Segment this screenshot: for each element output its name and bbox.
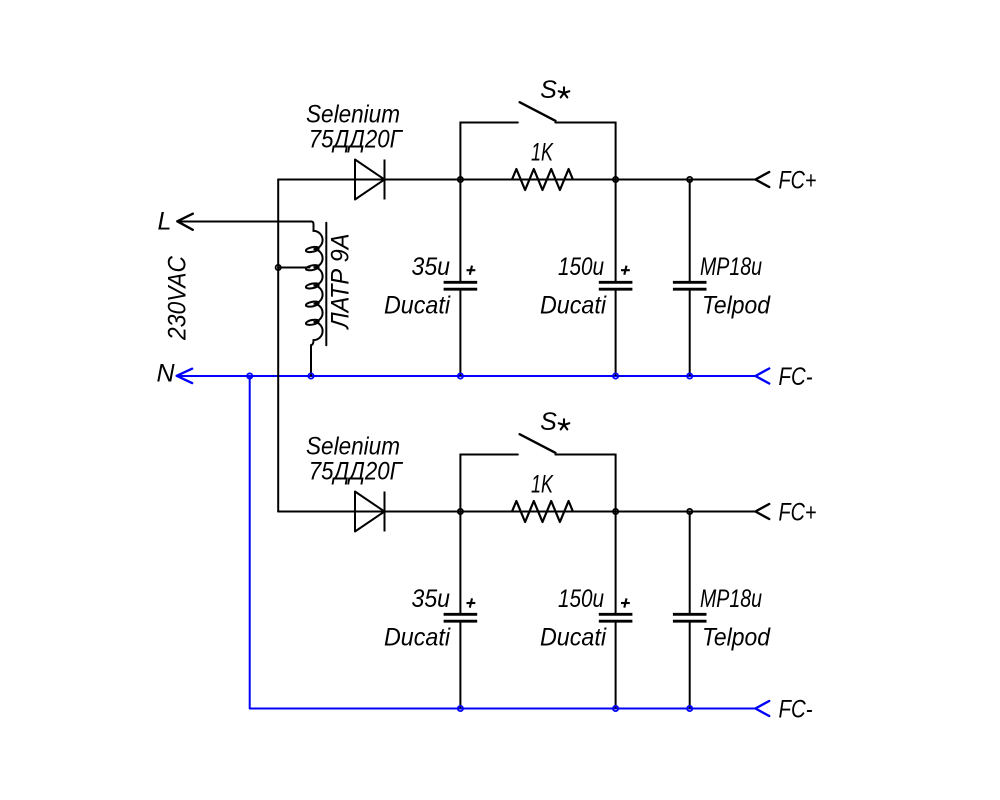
wire: L line to variac top (177, 221, 311, 223)
switch blade (520, 102, 556, 121)
svg-text:75ДД20Г: 75ДД20Г (309, 126, 404, 154)
node: top rail junctions (276, 177, 693, 270)
svg-text:Selenium: Selenium (306, 432, 400, 460)
wire: blue vertical to bottom FC- rail (250, 376, 756, 709)
node: bottom blue FC- rail junctions (458, 706, 693, 711)
svg-text:Ducati: Ducati (540, 292, 607, 320)
svg-text:MP18u: MP18u (700, 253, 762, 281)
plus sign C2 (621, 269, 630, 271)
wire: left vertical feed from top rail to bottom rail (277, 180, 279, 512)
node: variac tap (276, 265, 281, 270)
capacitor C3 MP18u (673, 180, 707, 377)
svg-text:S: S (540, 76, 557, 104)
svg-text:L: L (158, 208, 172, 236)
svg-text:ЛАТР 9А: ЛАТР 9А (327, 234, 355, 331)
svg-text:75ДД20Г: 75ДД20Г (309, 458, 404, 486)
svg-text:35u: 35u (412, 585, 451, 613)
transformer T1 variac ЛАТР coil (305, 222, 326, 376)
node: blue N rail junctions (247, 373, 692, 378)
transformer core bar (325, 223, 327, 345)
svg-text:35u: 35u (412, 253, 451, 281)
svg-text:Ducati: Ducati (540, 624, 607, 652)
svg-text:Telpod: Telpod (702, 292, 771, 320)
capacitor C1 35u (444, 180, 478, 377)
svg-text:FC-: FC- (779, 363, 813, 391)
svg-text:S: S (540, 408, 557, 436)
capacitor C4 35u (444, 512, 478, 709)
svg-text:1K: 1K (531, 471, 554, 499)
plus sign C1 (467, 269, 476, 271)
plus sign C5 (621, 602, 630, 604)
svg-text:N: N (157, 360, 176, 388)
switch S2 (460, 434, 615, 511)
resistor R2 1K (512, 501, 573, 522)
svg-text:FC+: FC+ (779, 499, 817, 527)
wire switch left (460, 123, 517, 180)
svg-text:Selenium: Selenium (306, 100, 400, 128)
wire switch right (555, 123, 615, 180)
svg-text:Ducati: Ducati (384, 292, 451, 320)
svg-text:1K: 1K (531, 139, 554, 167)
wire: bottom FC+ rail (278, 511, 755, 513)
svg-text:Ducati: Ducati (384, 624, 451, 652)
switch blade (520, 434, 556, 453)
wire switch left (460, 455, 517, 512)
port FC- top arrow (755, 369, 769, 384)
wire: variac tap to vertical feed (278, 267, 309, 269)
svg-text:MP18u: MP18u (700, 585, 762, 613)
plus sign C4 (467, 602, 476, 604)
node: bottom rail junctions (458, 509, 693, 514)
svg-text:Telpod: Telpod (702, 624, 771, 652)
capacitor C6 MP18u (673, 512, 707, 709)
port FC- bottom arrow (755, 701, 769, 716)
svg-text:FC-: FC- (779, 696, 813, 724)
capacitor C2 150u (599, 180, 633, 377)
capacitor C5 150u (599, 512, 633, 709)
svg-text:150u: 150u (558, 585, 604, 613)
wire: blue N / FC- top rail (177, 369, 770, 717)
svg-text:230VAC: 230VAC (164, 255, 192, 341)
svg-text:FC+: FC+ (779, 167, 817, 195)
diode D2 Selenium (355, 492, 385, 532)
wire: top FC+ rail (278, 179, 755, 181)
port FC+ bottom arrow (755, 504, 769, 519)
svg-text:150u: 150u (558, 253, 604, 281)
port FC+ top arrow (755, 172, 769, 187)
switch S1 (460, 102, 615, 179)
diode D1 Selenium (355, 160, 385, 200)
resistor R1 1K (512, 169, 573, 190)
port N arrow (177, 369, 192, 383)
port L arrow (177, 214, 193, 230)
wire switch right (555, 455, 615, 512)
